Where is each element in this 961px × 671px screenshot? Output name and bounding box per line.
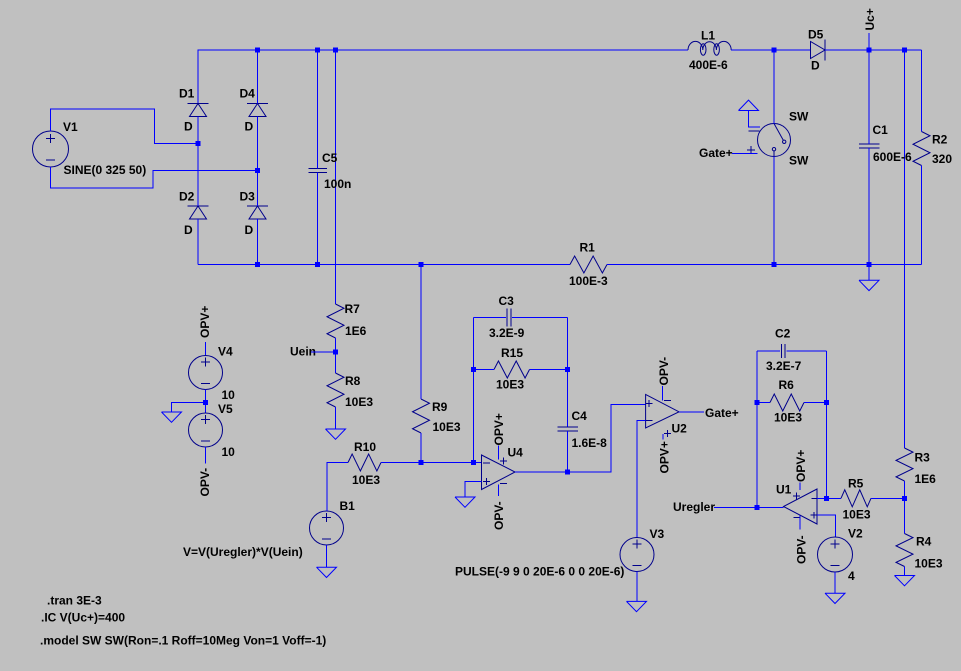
node top rail / R3 sense junction (902, 48, 907, 53)
wire B1 bottom lead (326, 545, 328, 567)
wire R5 to R3/R4 node (871, 497, 905, 499)
wire SW drain lead (773, 50, 775, 124)
svg-text:OPV+: OPV+ (198, 306, 212, 338)
svg-text:V3: V3 (650, 527, 665, 541)
node U2 OPV- flag (657, 357, 671, 401)
node OPV- flag below V5 (198, 447, 212, 497)
svg-text:10E3: 10E3 (345, 395, 373, 409)
resistor R3 (896, 448, 936, 486)
svg-text:R6: R6 (779, 378, 795, 392)
wire C1 ground stub (868, 265, 870, 281)
svg-text:R1: R1 (580, 241, 596, 255)
svg-text:100n: 100n (324, 177, 351, 191)
svg-text:B1: B1 (340, 499, 356, 513)
node R6 left junction (755, 400, 760, 405)
node U1 OPV- flag (795, 516, 809, 565)
node Uein junction (333, 350, 338, 355)
svg-text:C2: C2 (775, 327, 791, 341)
wire D4 cathode lead (257, 50, 259, 104)
node V4/V5 midpoint (203, 400, 208, 405)
svg-text:Gate+: Gate+ (705, 406, 739, 420)
node bottom rail / SW junction (772, 262, 777, 267)
svg-text:10: 10 (222, 388, 236, 402)
ground at supply midpoint (162, 412, 182, 422)
spice directive .tran (47, 594, 102, 608)
svg-text:U4: U4 (508, 446, 524, 460)
wire bottom rail right of R1 (607, 264, 922, 266)
svg-text:OPV+: OPV+ (492, 413, 506, 445)
svg-text:D4: D4 (240, 87, 256, 101)
svg-text:Gate+: Gate+ (699, 146, 733, 160)
svg-text:OPV-: OPV- (795, 535, 809, 564)
diode D4 (240, 87, 269, 134)
svg-text:10E3: 10E3 (843, 508, 871, 522)
svg-text:SW: SW (789, 154, 809, 168)
wire D3 anode lead (257, 219, 259, 265)
svg-text:V=V(Uregler)*V(Uein): V=V(Uregler)*V(Uein) (183, 545, 303, 559)
wire R4 bottom lead (904, 567, 906, 576)
source B1 (183, 499, 355, 559)
svg-text:R9: R9 (432, 400, 448, 414)
wire Gate+ to SW plus control (732, 153, 758, 155)
node top rail / SW junction (772, 48, 777, 53)
wire SW minus control stem (749, 111, 760, 128)
wire R3 bottom lead (904, 481, 906, 498)
spice directive .model (40, 634, 326, 648)
wire input sense line down to R7 (335, 50, 337, 304)
resistor R6 (770, 378, 804, 425)
svg-text:1E6: 1E6 (345, 324, 367, 338)
voltage source V4 (189, 345, 236, 403)
svg-text:R5: R5 (848, 477, 864, 491)
svg-text:10: 10 (222, 445, 236, 459)
node R3/R4/R5 junction (902, 496, 907, 501)
svg-text:D: D (184, 223, 193, 237)
wire U1 output to Uregler (714, 506, 784, 508)
wire B1 to R10 (327, 463, 348, 512)
wire V1 minus loop (51, 167, 258, 188)
diode D3 (240, 189, 269, 237)
svg-text:D3: D3 (240, 189, 256, 203)
svg-text:3.2E-7: 3.2E-7 (766, 359, 802, 373)
node Uregler / U1 output junction (755, 505, 760, 510)
wire C1 top lead (868, 50, 870, 144)
node Gate+ label at SW (699, 146, 733, 160)
wire feedback left rail (473, 318, 475, 463)
svg-text:R7: R7 (345, 302, 361, 316)
wire U1 noninverting input to V2 (817, 515, 836, 537)
svg-text:OPV-: OPV- (198, 468, 212, 497)
wire R6 right lead (804, 402, 827, 404)
svg-text:C1: C1 (873, 123, 889, 137)
wire supply midpoint to ground (172, 403, 206, 412)
svg-text:.model SW SW(Ron=.1 Roff=10Meg: .model SW SW(Ron=.1 Roff=10Meg Von=1 Vof… (40, 634, 326, 648)
wire C1 bottom lead (868, 148, 870, 265)
node C4 / U4 output junction (565, 470, 570, 475)
svg-text:1.6E-8: 1.6E-8 (572, 436, 608, 450)
wire R9 bottom lead (420, 433, 422, 463)
svg-text:10E3: 10E3 (774, 411, 802, 425)
node bottom rail / C1 junction (867, 262, 872, 267)
wire D2 anode lead (197, 219, 199, 265)
wire V4-V5 link (205, 390, 207, 414)
wire U4 noninverting input to ground (465, 482, 482, 497)
voltage source V2 (818, 527, 864, 584)
node U1 input / R5 / rail junction (824, 496, 829, 501)
node feedback left rail junction (471, 460, 476, 465)
wire C2/R6 left rail (756, 351, 758, 507)
node Uregler label (673, 500, 715, 514)
svg-text:D: D (811, 59, 820, 73)
svg-text:R15: R15 (501, 346, 523, 360)
wire V2 bottom lead (834, 572, 836, 593)
svg-text:C4: C4 (572, 409, 588, 423)
svg-text:C3: C3 (499, 294, 515, 308)
op-amp U2 (646, 394, 688, 436)
svg-text:OPV-: OPV- (492, 501, 506, 530)
svg-text:Uc+: Uc+ (863, 8, 877, 30)
ground below R8 (326, 429, 346, 439)
svg-text:L1: L1 (701, 29, 715, 43)
svg-text:R8: R8 (345, 374, 361, 388)
wire R6 left lead (757, 402, 770, 404)
node OPV+ flag above V4 (198, 306, 212, 356)
wire C5 top lead (317, 50, 319, 169)
voltage source V1 (33, 120, 147, 177)
svg-text:D: D (184, 120, 193, 134)
wire U1 inverting input to R5 (817, 497, 841, 499)
resistor R9 (413, 399, 461, 434)
svg-text:400E-6: 400E-6 (689, 58, 728, 72)
svg-text:SINE(0 325 50): SINE(0 325 50) (64, 163, 147, 177)
node R15 right junction (565, 367, 570, 372)
svg-text:3.2E-9: 3.2E-9 (489, 326, 525, 340)
svg-text:.tran 3E-3: .tran 3E-3 (47, 594, 102, 608)
svg-text:V2: V2 (848, 527, 863, 541)
diode D2 (179, 189, 209, 237)
diode D5 (808, 28, 825, 73)
node R6 right junction (824, 400, 829, 405)
svg-text:.IC V(Uc+)=400: .IC V(Uc+)=400 (41, 611, 125, 625)
voltage source V3 (455, 527, 665, 579)
capacitor C1 (859, 123, 912, 164)
svg-text:OPV+: OPV+ (794, 450, 808, 482)
svg-text:100E-3: 100E-3 (569, 274, 608, 288)
svg-text:R2: R2 (932, 133, 948, 147)
svg-text:D: D (245, 120, 254, 134)
svg-text:4: 4 (848, 569, 855, 583)
node U4 OPV- flag (492, 485, 506, 531)
ground at SW minus control (pointing up) (739, 100, 759, 110)
node bridge left mid (196, 141, 201, 146)
svg-text:1E6: 1E6 (915, 472, 937, 486)
svg-text:R4: R4 (916, 535, 932, 549)
capacitor C5 (308, 151, 351, 191)
wire R4 top lead (904, 498, 906, 533)
svg-text:V4: V4 (218, 345, 233, 359)
ground below V2 (825, 593, 845, 603)
node Gate+ label at U2 (705, 406, 739, 420)
capacitor C4 (557, 409, 607, 450)
resistor R10 (348, 440, 381, 487)
node Uc+ flag (863, 8, 877, 50)
node bridge right mid (255, 168, 260, 173)
node top rail / C5 junction (315, 48, 320, 53)
wire top rail middle segment (731, 49, 811, 51)
node U2 OPV+ flag (658, 434, 672, 474)
ground below B1 (317, 567, 337, 577)
resistor R4 (896, 534, 943, 571)
wire D4-D3 column (257, 117, 259, 207)
spice directive .IC (41, 611, 125, 625)
svg-text:Uregler: Uregler (673, 500, 715, 514)
node bottom rail / D3 junction (255, 262, 260, 267)
svg-text:C5: C5 (322, 151, 338, 165)
wire R2 bottom lead (921, 166, 923, 265)
capacitor C3 (489, 294, 525, 340)
node top rail / R7 sense junction (333, 48, 338, 53)
svg-text:600E-6: 600E-6 (873, 150, 912, 164)
wire R8 bottom lead (335, 407, 337, 429)
wire top rail right segment (825, 49, 922, 51)
wire R7-R8 link (335, 338, 337, 373)
wire D1-D2 column (197, 117, 199, 207)
resistor R8 (327, 373, 373, 409)
wire U4 output to U2 (515, 405, 646, 472)
node bottom rail / R9 junction (419, 262, 424, 267)
svg-text:D: D (245, 223, 254, 237)
wire R2 top lead (921, 50, 923, 132)
svg-text:D1: D1 (179, 87, 195, 101)
wire U2 inverting input to V3 (637, 421, 646, 538)
wire C2/R6 right rail (826, 351, 828, 498)
wire C3 right lead (512, 317, 568, 319)
inductor L1 (688, 29, 731, 73)
ground at U4 noninverting input (455, 497, 475, 507)
resistor R5 (841, 477, 871, 522)
ground below R4 (895, 576, 915, 586)
wire feedback right rail upper (567, 318, 569, 428)
op-amp U4 (482, 446, 524, 490)
wire feedback right rail lower (567, 431, 569, 472)
resistor R15 (494, 346, 530, 392)
wire top rail left segment with corner down to D1 (198, 50, 688, 104)
op-amp U1 (mirrored) (776, 483, 817, 525)
wire R10 to U4 inverting input (381, 462, 482, 464)
node Uein label and stub (290, 345, 336, 359)
wire C2 left lead (757, 350, 780, 352)
wire SW source lead (773, 157, 775, 265)
wire C2 right lead (787, 350, 827, 352)
ground below V3 (627, 601, 647, 611)
capacitor C2 (766, 327, 802, 374)
node bottom rail / C5 junction (315, 262, 320, 267)
node R15 left junction (471, 367, 476, 372)
wire U2 output to Gate+ label (679, 411, 704, 413)
wire V3 bottom lead (636, 572, 638, 602)
svg-text:V5: V5 (218, 402, 233, 416)
wire C5 bottom lead (317, 173, 319, 265)
node top rail / C1 junction (867, 48, 872, 53)
wire bottom rail left of R1 (198, 219, 570, 265)
resistor R1 (569, 241, 608, 289)
svg-text:R10: R10 (354, 440, 376, 454)
svg-text:D5: D5 (808, 28, 824, 42)
svg-text:10E3: 10E3 (433, 420, 461, 434)
svg-text:PULSE(-9 9 0 20E-6 0 0 20E-6): PULSE(-9 9 0 20E-6 0 0 20E-6) (455, 565, 624, 579)
wire R15 left lead (474, 369, 495, 371)
svg-text:D2: D2 (179, 189, 195, 203)
diode D1 (179, 87, 209, 134)
svg-text:10E3: 10E3 (352, 473, 380, 487)
node U1 OPV+ flag (794, 450, 808, 490)
ground below C1 (859, 280, 879, 290)
node U4 OPV+ flag (492, 413, 506, 459)
svg-text:V1: V1 (63, 120, 78, 134)
wire output sense line down to R3 (904, 50, 906, 448)
svg-text:OPV+: OPV+ (658, 441, 672, 473)
wire V1 plus loop (51, 109, 199, 144)
wire R9 top lead (420, 265, 422, 400)
node R9 / input net junction (419, 460, 424, 465)
resistor R2 (913, 132, 952, 167)
voltage source V5 (189, 402, 236, 459)
resistor R7 (327, 302, 367, 338)
svg-text:U2: U2 (672, 422, 688, 436)
svg-text:10E3: 10E3 (496, 378, 524, 392)
wire C3 left lead (474, 317, 507, 319)
svg-text:OPV-: OPV- (657, 357, 671, 386)
svg-text:U1: U1 (776, 483, 792, 497)
node top rail / D4 junction (255, 48, 260, 53)
svg-text:SW: SW (789, 110, 809, 124)
wire R15 right lead (530, 369, 568, 371)
switch SW (747, 110, 809, 168)
svg-text:10E3: 10E3 (915, 557, 943, 571)
svg-text:320: 320 (932, 152, 952, 166)
svg-text:R3: R3 (915, 451, 931, 465)
